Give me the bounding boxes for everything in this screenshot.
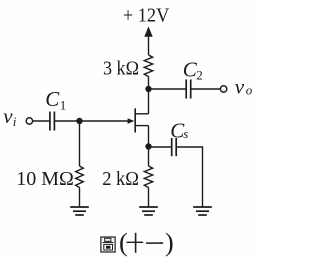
node source junction xyxy=(145,143,151,149)
svg-text:10 MΩ: 10 MΩ xyxy=(16,168,74,190)
label C1 xyxy=(45,87,66,112)
wire gate node to JFET gate xyxy=(80,120,129,122)
label Cs xyxy=(170,119,188,143)
svg-text:3 kΩ: 3 kΩ xyxy=(103,58,139,80)
caption hanzi tu outer box xyxy=(101,237,115,252)
caption hanzi shi wedge serif xyxy=(141,241,144,243)
wire C1 to gate node xyxy=(54,120,79,122)
svg-text:C: C xyxy=(45,87,60,111)
resistor 2 kOhm xyxy=(144,166,152,188)
ground left xyxy=(70,207,89,215)
transistor Q1 n-JFET xyxy=(128,89,149,147)
svg-text:): ) xyxy=(165,227,174,257)
caption hanzi tu top inner box xyxy=(105,238,111,241)
caption hanzi tu bottom inner box xyxy=(106,246,110,248)
ground middle xyxy=(139,207,158,215)
svg-text:1: 1 xyxy=(60,97,67,112)
svg-text:+ 12V: + 12V xyxy=(123,5,170,27)
capacitor C1 xyxy=(50,112,55,131)
svg-text:o: o xyxy=(246,83,253,98)
capacitor C2 xyxy=(186,80,191,99)
wire C2 to output terminal xyxy=(191,88,221,90)
caption hanzi tu bottom outer box xyxy=(104,244,113,250)
label vo xyxy=(235,75,253,99)
caption hanzi shi vertical xyxy=(135,233,137,253)
supply +12V label xyxy=(123,5,170,27)
svg-text:v: v xyxy=(3,104,13,128)
node gate junction xyxy=(76,118,82,124)
node drain junction xyxy=(145,86,151,92)
label 3 kOhm xyxy=(103,58,139,80)
wire drain node to C2 xyxy=(149,88,187,90)
label 2 kOhm xyxy=(102,168,139,190)
resistor 10 MOhm xyxy=(76,166,84,188)
svg-text:2: 2 xyxy=(196,67,203,82)
wire vi terminal to C1 xyxy=(33,120,50,122)
caption hanzi tu middle bar xyxy=(103,241,114,243)
svg-text:i: i xyxy=(13,114,17,129)
caption figure (eleven) xyxy=(101,227,174,257)
wire source node down to resistor 2k xyxy=(148,147,150,167)
resistor 3 kOhm xyxy=(144,55,152,77)
supply arrow xyxy=(144,26,152,55)
wire resistor 2k to ground xyxy=(148,188,150,208)
caption hanzi yi horizontal xyxy=(146,242,162,244)
input terminal circle vi xyxy=(26,118,32,124)
wire source node to Cs xyxy=(149,146,172,148)
wire resistor3k to drain node xyxy=(148,77,150,90)
svg-text:2 kΩ: 2 kΩ xyxy=(102,168,139,190)
caption hanzi yi wedge serif xyxy=(161,242,164,244)
label vi xyxy=(3,104,16,129)
capacitor Cs xyxy=(172,138,177,156)
wire resistor 10M to ground xyxy=(79,188,81,208)
caption hanzi shi horizontal xyxy=(127,241,142,243)
svg-text:s: s xyxy=(183,126,188,141)
svg-text:v: v xyxy=(235,75,245,99)
ground right xyxy=(193,207,212,215)
label C2 xyxy=(183,57,203,82)
output terminal circle vo xyxy=(220,86,226,92)
wire Cs to right corner and down to ground xyxy=(176,147,202,207)
wire gate node down to resistor 10M xyxy=(79,121,81,166)
caption hanzi tu top tick xyxy=(107,241,109,242)
label 10 MOhm xyxy=(16,168,74,190)
